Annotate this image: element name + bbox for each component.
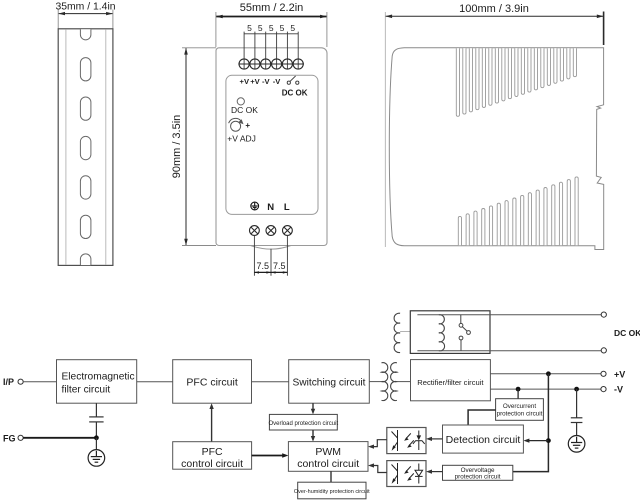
wire aux winding to relay box <box>400 331 410 333</box>
wire switching to T1 <box>369 381 381 383</box>
junction -V node 1 <box>516 387 521 392</box>
wire rectifier to +V <box>490 373 601 375</box>
junction FG node <box>94 435 99 440</box>
terminal divider lines <box>244 32 298 70</box>
svg-text:Overload protection circuit: Overload protection circuit <box>268 421 338 427</box>
dimension extension lines (rail) <box>58 10 113 29</box>
optocoupler U1 internals <box>392 430 425 451</box>
junction -V node 2 <box>574 387 579 392</box>
svg-text:35mm / 1.4in: 35mm / 1.4in <box>55 2 115 13</box>
wire I/P to EMI filter <box>23 381 56 383</box>
earth ground G2 <box>568 436 585 453</box>
dimension extension lines (front view height) <box>182 48 216 246</box>
svg-text:Electromagnetic: Electromagnetic <box>62 372 135 383</box>
terminal pitch labels 5 5 5 5 5 <box>247 23 295 33</box>
wire switching to overload (arrow down) <box>312 403 314 412</box>
box over-humidity protection circuit <box>298 482 366 499</box>
rail bottom notch <box>80 254 91 265</box>
svg-text:Over-humidity protection circu: Over-humidity protection circuit <box>294 489 370 495</box>
svg-text:5: 5 <box>280 23 285 33</box>
wire rectifier to -V <box>490 388 601 390</box>
dimension line 90mm <box>184 48 188 246</box>
terminal pitch dimension line with 5 labels <box>244 33 298 35</box>
terminal -V <box>601 387 606 392</box>
dimension line 100mm <box>385 15 603 19</box>
wire +V down to detection/overvoltage <box>513 374 549 472</box>
relay box <box>410 311 490 354</box>
terminal labels +V +V -V -V <box>240 77 282 86</box>
svg-text:control circuit: control circuit <box>297 458 359 470</box>
box switching circuit <box>289 360 370 404</box>
svg-text:5: 5 <box>258 23 263 33</box>
box overload protection circuit <box>269 414 337 430</box>
svg-text:+V: +V <box>240 77 250 86</box>
DC OK output terminals <box>601 312 606 317</box>
svg-text:Rectifier/filter circuit: Rectifier/filter circuit <box>417 378 484 387</box>
svg-text:+: + <box>245 121 250 130</box>
wire EMI to PFC <box>137 381 173 383</box>
capacitor C2 output <box>571 389 583 435</box>
wire PFC to switching <box>252 381 289 383</box>
+V ADJ potentiometer <box>229 118 241 131</box>
optocoupler U2 box <box>387 461 426 487</box>
svg-text:Overcurrent: Overcurrent <box>503 403 536 410</box>
DC OK contact symbol on case <box>287 76 299 84</box>
svg-text:7.5: 7.5 <box>256 261 269 271</box>
svg-text:5: 5 <box>247 23 252 33</box>
box electromagnetic filter circuit <box>57 360 137 404</box>
rail top notch <box>80 29 91 40</box>
DC OK LED <box>237 98 244 105</box>
rail slot 4 <box>80 176 91 199</box>
svg-text:5: 5 <box>269 23 274 33</box>
box PFC control circuit <box>173 442 252 470</box>
transformer T1 secondary winding <box>391 363 397 401</box>
svg-text:7.5: 7.5 <box>273 261 286 271</box>
box PWM control circuit <box>288 442 368 472</box>
dimension line 55mm <box>216 15 327 19</box>
box rectifier/filter circuit <box>411 360 491 401</box>
rail slot 2 <box>80 97 91 120</box>
7.5 dimension lines <box>254 271 287 273</box>
dimension line 35mm <box>58 12 113 15</box>
svg-text:+V: +V <box>614 369 625 379</box>
wire PFC control to PFC (arrow up) <box>211 406 213 442</box>
junction +V node <box>546 371 551 376</box>
dimension extension line right (side view) <box>603 12 605 46</box>
svg-text:L: L <box>284 202 290 213</box>
transformer T1 primary winding <box>382 363 388 401</box>
relay top wire to DC OK <box>417 314 601 316</box>
box detection circuit <box>443 425 524 453</box>
relay contact K1 <box>459 315 470 351</box>
svg-text:protection circuit: protection circuit <box>455 474 501 481</box>
wire PWM to over-humidity <box>330 471 332 482</box>
svg-text:N: N <box>267 202 274 213</box>
svg-text:PFC: PFC <box>202 446 223 458</box>
louver slots bottom group <box>458 177 578 245</box>
box overvoltage protection circuit <box>443 465 513 480</box>
rail slot 5 <box>80 215 91 238</box>
wire T1 to rectifier <box>397 381 411 383</box>
dimension extension lines (front view width) <box>216 12 327 47</box>
svg-text:100mm / 3.9in: 100mm / 3.9in <box>459 3 529 15</box>
wire overcurrent to detection top <box>468 410 496 425</box>
wire opto1 to PWM (arrow into PWM) <box>371 440 387 447</box>
svg-text:90mm / 3.5in: 90mm / 3.5in <box>171 115 183 179</box>
junction detection node <box>546 438 551 443</box>
bottom recess curve <box>251 246 292 250</box>
bottom dimension extension lines <box>254 236 287 276</box>
wire detection to opto1 (arrow into opto1) <box>429 438 443 440</box>
svg-text:-V: -V <box>273 77 282 86</box>
svg-text:filter circuit: filter circuit <box>62 385 111 396</box>
svg-text:protection circuit: protection circuit <box>497 411 543 418</box>
earth ground G1 <box>88 450 105 467</box>
svg-text:PFC circuit: PFC circuit <box>186 377 237 389</box>
wire PFC control to PWM (arrow right) <box>252 455 286 457</box>
optocoupler U1 box <box>387 428 426 454</box>
svg-text:-V: -V <box>262 77 271 86</box>
wire FG to earth <box>95 438 97 450</box>
optocoupler U2 internals <box>392 463 423 484</box>
svg-text:Switching circuit: Switching circuit <box>292 378 365 389</box>
relay coil <box>439 315 445 351</box>
top terminal screws <box>238 59 304 69</box>
relay bottom wire to DC OK <box>417 350 601 352</box>
capacitor C1 (EMI to FG) <box>89 403 103 438</box>
svg-text:I/P: I/P <box>3 377 14 387</box>
bottom terminal screws <box>250 226 293 236</box>
svg-text:55mm / 2.2in: 55mm / 2.2in <box>240 2 304 14</box>
wire overvoltage to opto2 (arrow into opto2) <box>429 471 443 473</box>
svg-text:+V: +V <box>250 77 260 86</box>
svg-text:FG: FG <box>3 433 16 443</box>
DIN rail inner bend lines <box>66 29 106 265</box>
terminal +V <box>601 371 606 376</box>
rail slot 1 <box>80 58 91 81</box>
svg-text:DC OK: DC OK <box>282 89 308 98</box>
svg-text:DC OK: DC OK <box>614 328 640 338</box>
front case outline <box>216 48 327 246</box>
wire -V to overcurrent box <box>517 389 519 399</box>
dimension extension line left (side view) <box>384 12 386 247</box>
wire opto2 to PWM (arrow into PWM) <box>371 466 387 473</box>
rail slot 3 <box>80 136 91 159</box>
svg-text:DC OK: DC OK <box>231 105 258 115</box>
7.5 labels <box>256 261 285 271</box>
relay aux winding <box>394 313 400 352</box>
svg-text:-V: -V <box>614 385 623 395</box>
svg-text:control circuit: control circuit <box>181 458 243 470</box>
svg-text:Detection circuit: Detection circuit <box>446 434 521 446</box>
wire to detection right (arrow left) <box>526 440 548 442</box>
side view body outline <box>389 48 603 250</box>
box overcurrent protection circuit <box>496 399 544 421</box>
wire overload to PWM (arrow down) <box>312 430 314 439</box>
svg-text:5: 5 <box>290 23 295 33</box>
wire FG <box>23 437 96 439</box>
svg-text:PWM: PWM <box>315 446 341 458</box>
inner label panel <box>226 75 318 214</box>
earth terminal symbol on panel <box>251 202 259 210</box>
DIN rail outline <box>58 29 113 266</box>
louver slots top group <box>456 48 576 116</box>
svg-text:+V ADJ: +V ADJ <box>227 134 256 144</box>
box PFC circuit <box>173 360 252 404</box>
